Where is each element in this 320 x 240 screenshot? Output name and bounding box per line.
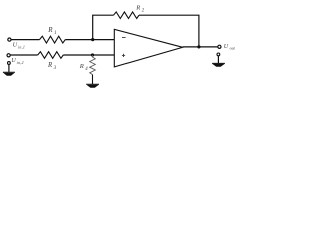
pin plus bbox=[122, 54, 125, 57]
node noninverting junction bbox=[91, 53, 94, 56]
svg-text:U: U bbox=[13, 42, 18, 49]
label R2 bbox=[135, 5, 145, 14]
ground below R4 bbox=[86, 84, 99, 87]
wire input1 right bbox=[65, 39, 115, 41]
resistor R3 bbox=[38, 52, 64, 59]
wire output ground stem bbox=[217, 56, 219, 64]
terminal U_out bbox=[218, 45, 221, 48]
label R1 bbox=[47, 26, 56, 36]
svg-text:R: R bbox=[47, 62, 53, 69]
node output junction bbox=[197, 45, 200, 48]
label U_out bbox=[224, 44, 236, 50]
wire feedback up bbox=[93, 15, 114, 39]
resistor R4 bbox=[90, 55, 96, 75]
svg-text:R: R bbox=[79, 63, 84, 70]
terminal input2 ground bbox=[7, 62, 10, 65]
terminal U_in1 bbox=[8, 38, 11, 41]
terminal U_in2 bbox=[7, 54, 10, 57]
wire output bbox=[183, 46, 218, 48]
svg-text:R: R bbox=[135, 5, 140, 12]
pin minus bbox=[122, 37, 126, 39]
label U_in2 bbox=[11, 57, 23, 66]
wire input2 right bbox=[63, 54, 115, 56]
label U_in1 bbox=[13, 42, 26, 51]
node inverting input junction bbox=[91, 38, 94, 41]
wire input2 left bbox=[10, 54, 38, 56]
wire input1 left bbox=[11, 39, 39, 41]
svg-text:out: out bbox=[230, 45, 236, 50]
resistor R2 bbox=[114, 12, 140, 19]
label R3 bbox=[47, 62, 57, 71]
label R4 bbox=[79, 63, 88, 72]
wire feedback right bbox=[139, 15, 199, 47]
svg-text:U: U bbox=[11, 57, 16, 64]
ground input side bbox=[3, 72, 15, 75]
svg-text:U: U bbox=[224, 44, 229, 50]
wire R4 to ground bbox=[92, 75, 94, 85]
svg-text:1: 1 bbox=[54, 31, 56, 36]
resistor R1 bbox=[40, 36, 66, 43]
op-amp U1 bbox=[114, 29, 182, 67]
terminal output ground bbox=[217, 53, 220, 56]
ground output side bbox=[212, 63, 225, 66]
svg-text:R: R bbox=[47, 26, 53, 34]
wire input2 ground stem bbox=[8, 64, 10, 72]
